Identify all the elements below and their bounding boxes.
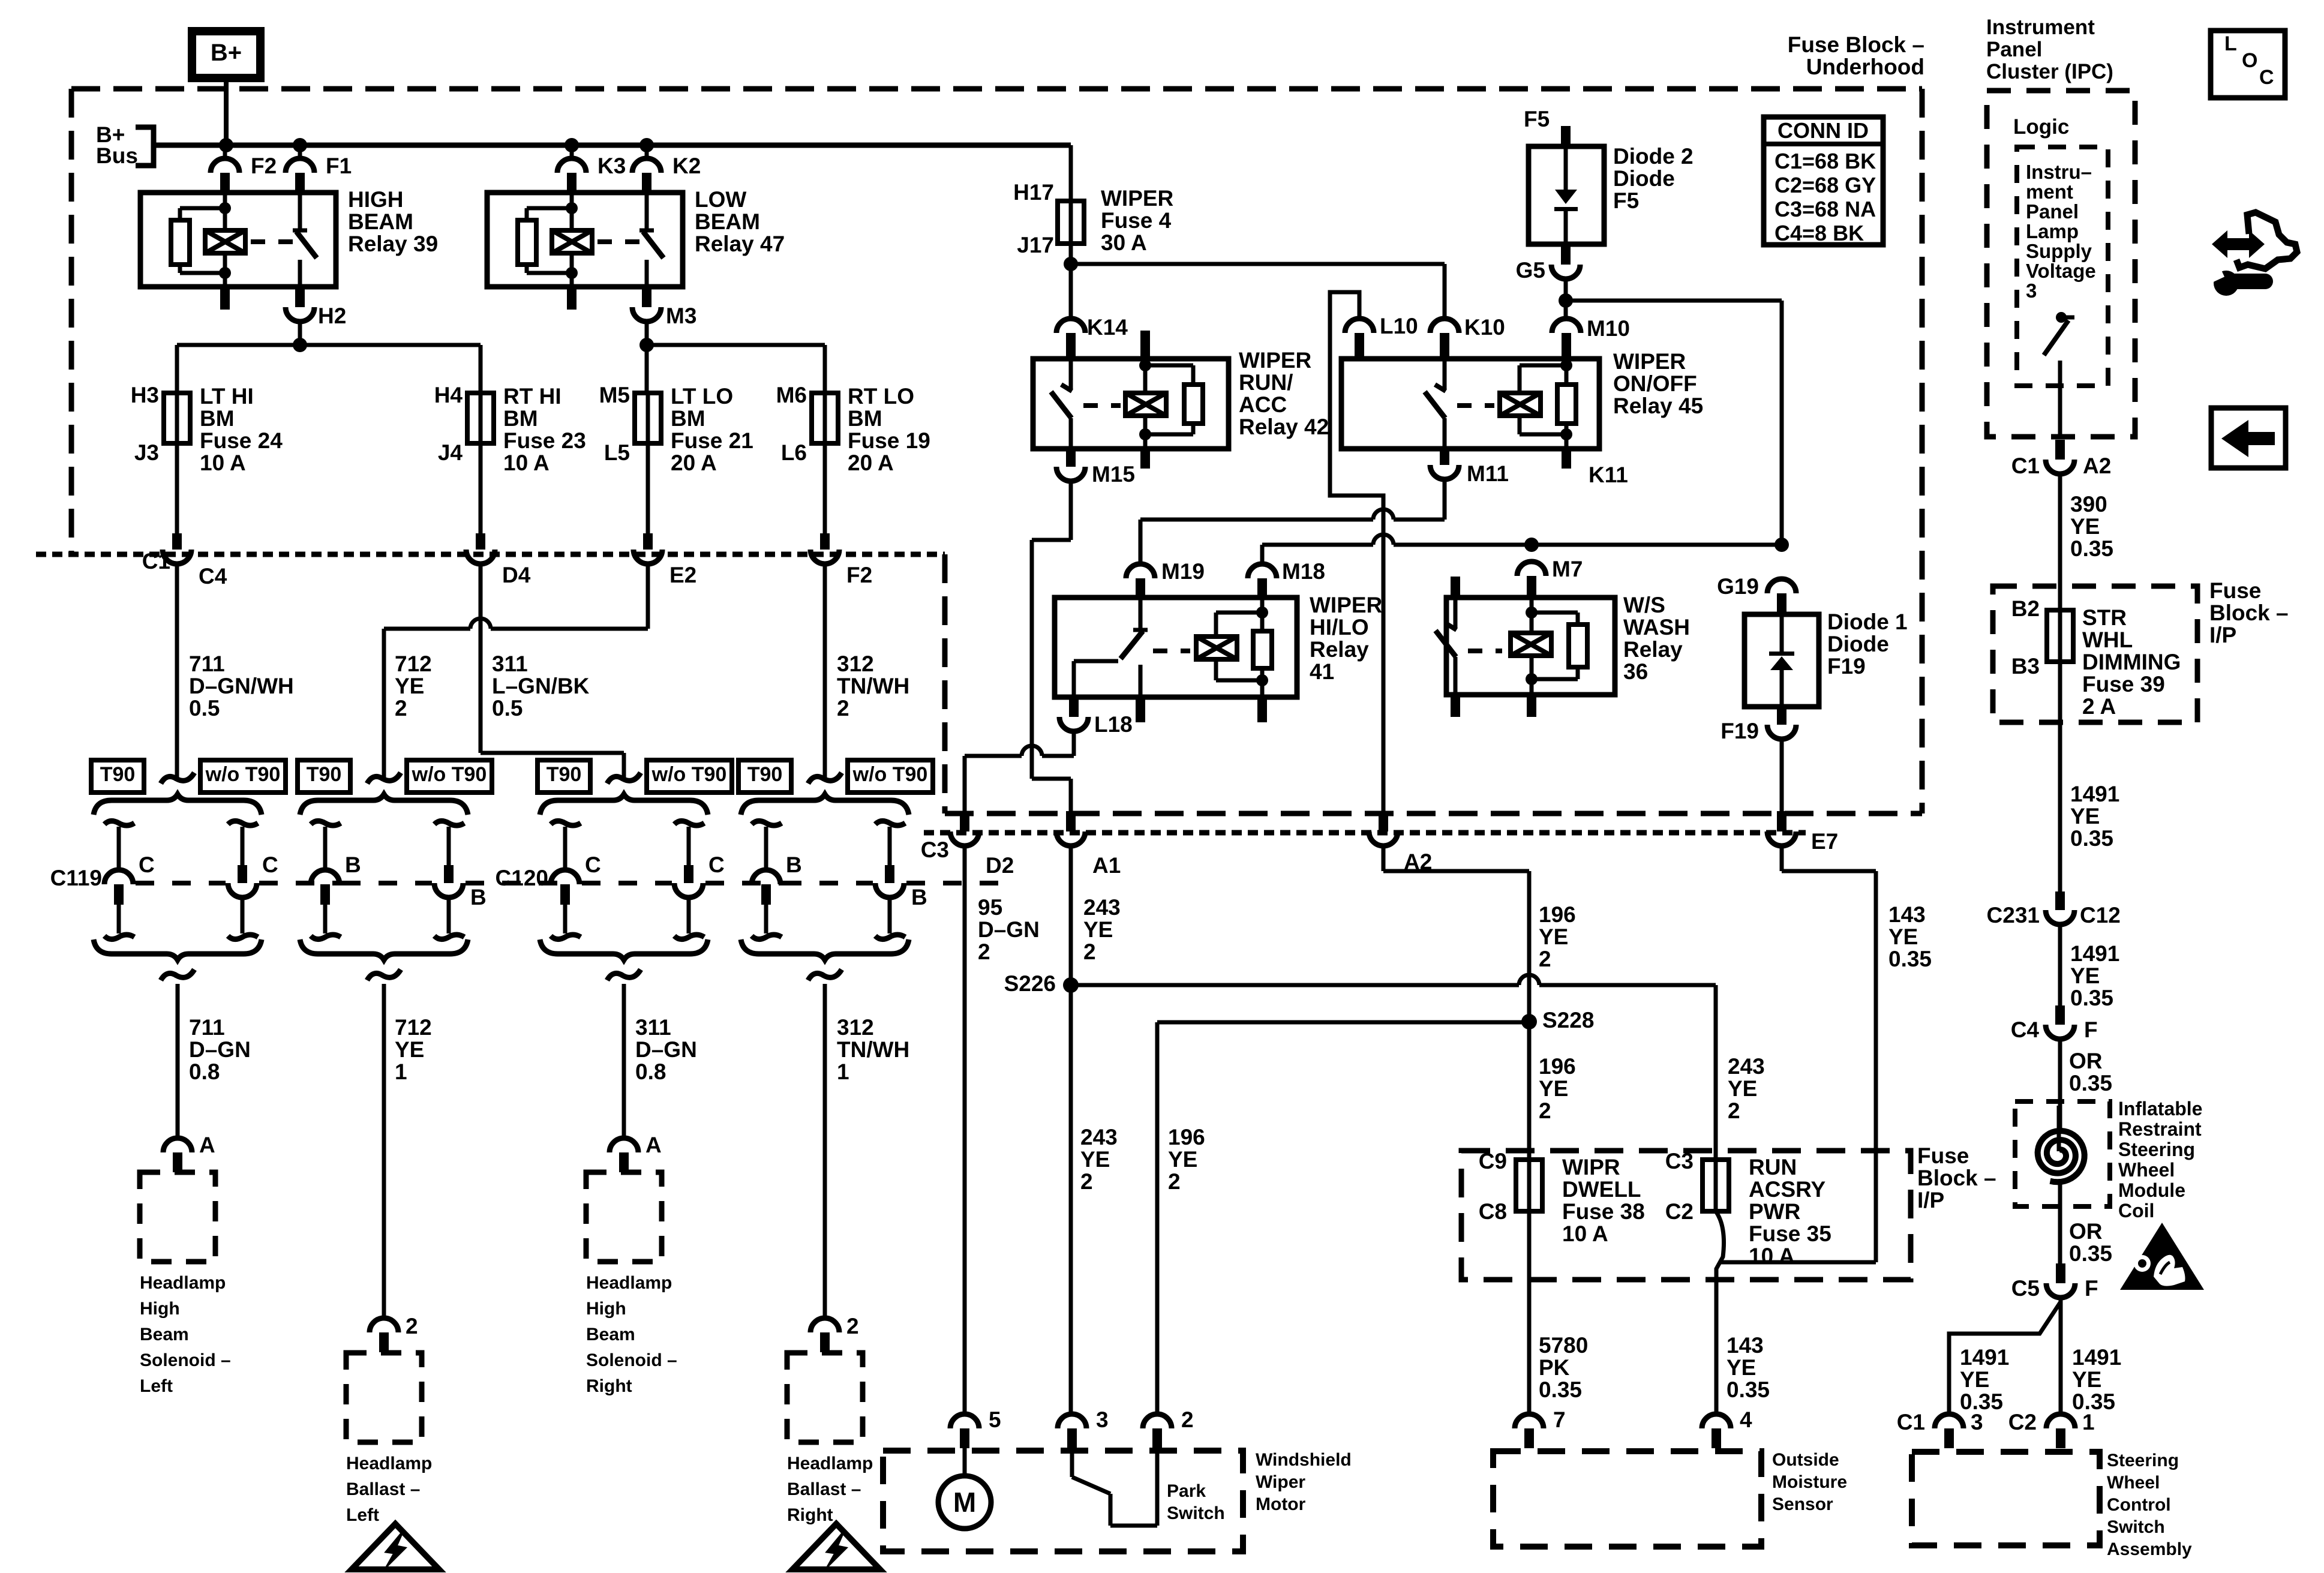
svg-text:Fuse 35: Fuse 35 — [1749, 1221, 1831, 1246]
inline connector dashes — [783, 881, 873, 885]
svg-text:LT HI: LT HI — [200, 384, 254, 409]
svg-text:C1: C1 — [1897, 1410, 1925, 1434]
svg-text:143: 143 — [1727, 1333, 1764, 1358]
connector C1/A2 (IPC output) — [2055, 440, 2065, 460]
wire 390 YE 0.35 — [2058, 474, 2062, 610]
svg-text:243: 243 — [1080, 1125, 1118, 1149]
resistor in relay 45 — [1565, 365, 1569, 385]
park switch in wiper motor — [1070, 1448, 1074, 1477]
svg-text:Cluster (IPC): Cluster (IPC) — [1986, 60, 2113, 83]
svg-text:2 A: 2 A — [2082, 694, 2116, 719]
svg-text:Fuse 24: Fuse 24 — [200, 428, 283, 453]
svg-text:RT HI: RT HI — [503, 384, 562, 409]
relay U41 WIPER HI/LO Relay 41 box — [1055, 598, 1297, 697]
wire 143 YE 0.35 from E7 — [1780, 846, 1784, 871]
T90 option box (chain at x=1375) — [738, 760, 791, 792]
Headlamp High Beam Solenoid - Right box — [586, 1172, 662, 1262]
svg-text:Relay 39: Relay 39 — [348, 232, 438, 256]
connector M11 (relay 45 output) — [1440, 449, 1449, 465]
relay 47 coil-switch dashed link — [597, 239, 642, 244]
node: relay39 coil bottom — [219, 267, 231, 279]
svg-text:Relay 47: Relay 47 — [695, 232, 785, 256]
svg-text:20 A: 20 A — [671, 451, 717, 475]
svg-text:YE: YE — [395, 1037, 424, 1062]
connector L10 — [1345, 319, 1374, 333]
svg-text:Steering: Steering — [2107, 1451, 2179, 1470]
svg-text:2: 2 — [846, 1314, 859, 1338]
relay 36 coil-switch dashed link — [1468, 649, 1502, 653]
svg-text:Assembly: Assembly — [2107, 1539, 2192, 1559]
connector pin 5 — [950, 1414, 979, 1428]
B+ power terminal — [192, 31, 260, 78]
connector G19 — [1767, 579, 1796, 593]
svg-text:Headlamp: Headlamp — [787, 1454, 873, 1473]
node: bus junction K2 — [639, 138, 654, 152]
Steering Wheel Control Switch Assembly dashed box — [1912, 1452, 2100, 1545]
left connector half chain — [311, 821, 341, 825]
svg-text:C: C — [585, 852, 601, 877]
svg-text:Coil: Coil — [2118, 1200, 2154, 1221]
optional-splice squiggle — [367, 773, 401, 784]
svg-text:H17: H17 — [1013, 180, 1054, 205]
svg-text:Underhood: Underhood — [1806, 55, 1924, 79]
wire 95 D-GN 2 from D2 to wiper motor — [963, 846, 967, 1414]
wire 311 D-GN 0.8 to right high beam solenoid — [622, 984, 626, 1138]
svg-text:YE: YE — [2072, 1367, 2101, 1392]
relay 42 coil pin stub (bottom) — [1140, 449, 1150, 469]
connector E7 — [1777, 811, 1786, 831]
connector 2 (left ballast) — [370, 1318, 398, 1332]
svg-text:M18: M18 — [1282, 559, 1325, 584]
svg-text:Fuse 19: Fuse 19 — [848, 428, 930, 453]
connector E2 — [643, 533, 653, 550]
svg-text:C12: C12 — [2080, 903, 2121, 927]
svg-text:W/S: W/S — [1623, 593, 1665, 617]
fuse F4 WIPER Fuse 4 30A — [1069, 201, 1073, 244]
svg-text:0.35: 0.35 — [1539, 1377, 1582, 1402]
connector H2 (relay 39 output) — [295, 287, 305, 307]
svg-text:A: A — [199, 1133, 215, 1157]
wire 312 TN/WH 2 from F2 — [823, 564, 827, 780]
optional-splice squiggle — [161, 969, 194, 980]
svg-text:C4=8 BK: C4=8 BK — [1774, 221, 1864, 245]
svg-text:w/o T90: w/o T90 — [412, 763, 487, 786]
svg-text:2: 2 — [1539, 1098, 1551, 1123]
wire 243 YE 2 from S226 to wiper motor pin 3 — [1069, 985, 1073, 1414]
svg-text:2: 2 — [1539, 947, 1551, 971]
svg-text:WHL: WHL — [2082, 628, 2133, 652]
Fuse Block - Underhood dashed border (bottom right) — [945, 811, 1922, 816]
LOC locator icon — [2211, 31, 2285, 98]
svg-text:1491: 1491 — [2070, 941, 2119, 966]
svg-text:Block –: Block – — [2209, 601, 2289, 625]
connector K14 — [1056, 319, 1085, 333]
svg-text:0.35: 0.35 — [1727, 1377, 1770, 1402]
svg-text:PWR: PWR — [1749, 1199, 1800, 1224]
svg-text:Headlamp: Headlamp — [586, 1273, 672, 1293]
svg-text:4: 4 — [1740, 1407, 1752, 1432]
B+ Bus bracket — [136, 127, 154, 166]
CONN ID table — [1764, 117, 1883, 245]
svg-text:Wiper: Wiper — [1256, 1472, 1305, 1492]
wire M11 to relay 41 coil M19 feed — [1443, 479, 1447, 520]
svg-text:L18: L18 — [1094, 712, 1133, 737]
relay U36 W/S WASH Relay 36 box — [1446, 598, 1615, 695]
fuse F19 RT LO BM Fuse 19 20A — [823, 393, 827, 443]
svg-text:RT LO: RT LO — [848, 384, 914, 409]
connector C1 pin 3 — [1935, 1414, 1963, 1428]
svg-text:M15: M15 — [1092, 462, 1135, 487]
connector C2 pin 1 — [2046, 1414, 2075, 1428]
connector pin 3 — [1058, 1414, 1086, 1428]
svg-text:Wheel: Wheel — [2118, 1159, 2175, 1181]
svg-text:0.35: 0.35 — [2070, 536, 2113, 561]
svg-text:YE: YE — [395, 674, 424, 698]
svg-text:T90: T90 — [747, 763, 783, 786]
svg-text:YE: YE — [1539, 924, 1568, 949]
svg-text:K14: K14 — [1087, 315, 1128, 340]
node: bus junction at B+ drop — [219, 138, 233, 152]
wire M18 feed from relay output bus — [1260, 545, 1265, 564]
wire bus to wiper fuse — [1069, 145, 1073, 201]
svg-text:F: F — [2085, 1276, 2098, 1301]
svg-text:BM: BM — [503, 406, 538, 431]
Fuse Block - Underhood dashed border (right) — [1920, 89, 1925, 813]
svg-text:10 A: 10 A — [503, 451, 550, 475]
svg-text:T90: T90 — [307, 763, 342, 786]
svg-text:D–GN: D–GN — [978, 917, 1040, 942]
relay 39 coil — [205, 230, 245, 253]
svg-text:BM: BM — [200, 406, 235, 431]
svg-text:C9: C9 — [1479, 1149, 1507, 1173]
node: bus junction K3 — [565, 138, 579, 152]
svg-text:A: A — [645, 1133, 662, 1157]
relay 36 coil pin stub — [1527, 695, 1536, 717]
wire S228 to wiper motor pin 2 (park switch) — [1157, 1020, 1529, 1025]
connector A (right solenoid) — [609, 1138, 638, 1152]
wire S226 to RUN ACSRY PWR fuse 35 — [1071, 983, 1519, 987]
connector K2 (relay 47 switch feed) — [645, 145, 649, 158]
svg-text:390: 390 — [2070, 492, 2107, 517]
svg-text:711: 711 — [189, 1015, 225, 1040]
svg-text:0.35: 0.35 — [2069, 1241, 2112, 1266]
relay 42 coil-switch dashed link — [1083, 403, 1121, 408]
brace (top) — [94, 794, 262, 815]
svg-text:2: 2 — [1168, 1169, 1181, 1194]
svg-text:D–GN: D–GN — [635, 1037, 697, 1062]
connector F2 (output) — [820, 533, 830, 550]
svg-text:C3: C3 — [1665, 1149, 1694, 1173]
relay 41 switch — [1139, 598, 1143, 630]
svg-text:G19: G19 — [1717, 574, 1759, 599]
svg-text:YE: YE — [2070, 963, 2100, 988]
right connector half chain — [674, 821, 704, 825]
svg-text:C1=68 BK: C1=68 BK — [1774, 149, 1876, 173]
svg-text:ment: ment — [2026, 181, 2073, 203]
svg-text:Bus: Bus — [96, 143, 138, 168]
svg-text:LT LO: LT LO — [671, 384, 733, 409]
svg-text:E7: E7 — [1811, 829, 1838, 854]
wire M3 to low-beam fuses — [645, 322, 649, 345]
svg-text:High: High — [140, 1299, 180, 1319]
svg-text:C120: C120 — [496, 866, 548, 890]
wire 143 YE 0.35 from fuse 35 to moisture sensor pin 4 — [1716, 1211, 1724, 1414]
svg-text:LOW: LOW — [695, 187, 746, 212]
svg-text:YE: YE — [1168, 1147, 1197, 1172]
svg-text:196: 196 — [1539, 902, 1576, 927]
svg-text:C: C — [262, 852, 278, 877]
svg-text:w/o T90: w/o T90 — [205, 763, 281, 786]
wire 712 YE 2 from E2 — [646, 564, 650, 629]
svg-text:B: B — [345, 852, 361, 877]
svg-text:C4: C4 — [2011, 1017, 2040, 1042]
relay 41 coil pin stub — [1257, 697, 1267, 722]
svg-text:2: 2 — [1181, 1407, 1194, 1432]
svg-text:C2=68 GY: C2=68 GY — [1774, 173, 1876, 197]
svg-text:Diode 1: Diode 1 — [1827, 610, 1908, 634]
svg-text:Fuse 4: Fuse 4 — [1101, 208, 1172, 233]
wire G5 to diode 1 column — [1566, 299, 1782, 303]
relay 45 coil — [1565, 359, 1569, 365]
svg-text:S226: S226 — [1004, 971, 1056, 996]
svg-text:T90: T90 — [547, 763, 582, 786]
connector pin 7 — [1515, 1414, 1544, 1428]
inline connector dashes — [582, 881, 672, 885]
resistor in relay 36 — [1532, 611, 1578, 615]
svg-text:M11: M11 — [1467, 461, 1509, 486]
svg-text:Windshield: Windshield — [1256, 1450, 1352, 1470]
brace (top) — [540, 794, 708, 815]
svg-text:w/o T90: w/o T90 — [651, 763, 727, 786]
left connector half chain — [752, 821, 782, 825]
svg-text:D4: D4 — [502, 563, 531, 587]
svg-text:36: 36 — [1623, 659, 1648, 684]
svg-text:DWELL: DWELL — [1562, 1177, 1641, 1202]
connector F19 — [1777, 707, 1786, 725]
w/o T90 option box — [848, 760, 933, 792]
svg-text:F5: F5 — [1524, 107, 1550, 131]
connector pin 2 — [1143, 1414, 1172, 1428]
svg-text:Wheel: Wheel — [2107, 1473, 2160, 1493]
connector M15 (relay 42 output) — [1066, 449, 1076, 467]
optional-splice squiggle — [808, 773, 842, 784]
svg-text:TN/WH: TN/WH — [837, 674, 909, 698]
svg-text:H4: H4 — [434, 383, 463, 407]
SIR airbag warning triangle — [2120, 1223, 2204, 1290]
svg-text:0.35: 0.35 — [1888, 947, 1932, 971]
svg-text:WIPER: WIPER — [1101, 186, 1173, 211]
node: bus junction F1 — [293, 138, 307, 152]
connector M3 (relay 47 output) — [642, 287, 651, 307]
resistor in relay 41 — [1260, 613, 1265, 631]
brace (bottom) — [94, 939, 262, 960]
svg-text:O: O — [2242, 49, 2257, 72]
svg-text:2: 2 — [837, 696, 849, 721]
connector A (left solenoid) — [163, 1138, 192, 1152]
svg-text:Fuse Block –: Fuse Block – — [1788, 32, 1924, 57]
relay 42 coil feed stub (top) — [1140, 331, 1150, 359]
relay 39 unused coil pin stub — [220, 287, 230, 310]
connector K10 — [1430, 319, 1459, 333]
svg-text:2: 2 — [978, 939, 990, 964]
svg-text:1491: 1491 — [1960, 1345, 2009, 1370]
svg-text:Diode: Diode — [1613, 166, 1675, 191]
svg-text:Inflatable: Inflatable — [2118, 1098, 2202, 1119]
svg-text:M5: M5 — [599, 383, 630, 407]
svg-text:0.35: 0.35 — [2070, 826, 2113, 851]
svg-text:BEAM: BEAM — [695, 209, 760, 234]
left connector half chain — [551, 821, 581, 825]
svg-text:2: 2 — [1083, 939, 1096, 964]
svg-text:Fuse: Fuse — [1917, 1143, 1969, 1168]
svg-text:L5: L5 — [604, 440, 630, 465]
svg-text:312: 312 — [837, 652, 874, 676]
svg-text:A2: A2 — [2083, 454, 2111, 478]
Headlamp Ballast - Right box — [787, 1353, 863, 1442]
svg-text:K10: K10 — [1464, 315, 1505, 340]
high voltage warning triangle (left) — [352, 1524, 439, 1569]
svg-text:Fuse: Fuse — [2209, 578, 2261, 603]
connector A2 — [1379, 811, 1388, 831]
svg-text:243: 243 — [1728, 1054, 1765, 1079]
svg-text:YE: YE — [1728, 1076, 1757, 1101]
wire M15 to connector A1 — [1069, 481, 1073, 540]
svg-text:C: C — [708, 852, 725, 877]
svg-text:K3: K3 — [597, 154, 626, 178]
svg-text:A1: A1 — [1092, 853, 1121, 878]
optional-splice squiggle — [607, 773, 641, 784]
svg-text:F19: F19 — [1827, 654, 1866, 679]
connector C5/F — [2056, 1263, 2065, 1283]
svg-text:Solenoid –: Solenoid – — [140, 1350, 231, 1370]
Fuse Block - Underhood dashed border (top) — [71, 86, 1922, 92]
relay U45 WIPER ON/OFF Relay 45 box — [1341, 359, 1599, 449]
relay 36 switch — [1451, 577, 1460, 598]
svg-text:WIPER: WIPER — [1613, 349, 1686, 374]
svg-text:C3=68 NA: C3=68 NA — [1774, 197, 1876, 221]
svg-text:Panel: Panel — [2026, 200, 2079, 223]
svg-text:YE: YE — [1083, 917, 1113, 942]
svg-text:3: 3 — [1971, 1410, 1983, 1434]
svg-text:143: 143 — [1888, 902, 1926, 927]
connector L10 feed loop — [1330, 292, 1383, 811]
connector F2 (relay 39 coil feed) — [223, 145, 227, 158]
svg-text:HI/LO: HI/LO — [1310, 615, 1369, 640]
svg-text:B: B — [911, 885, 927, 909]
svg-text:311: 311 — [492, 652, 528, 676]
svg-text:ACC: ACC — [1239, 392, 1287, 417]
svg-text:3: 3 — [1096, 1407, 1109, 1432]
svg-text:YE: YE — [1727, 1355, 1756, 1380]
wire 711 D-GN 0.8 to left high beam solenoid — [176, 984, 180, 1138]
svg-text:Logic: Logic — [2013, 115, 2069, 139]
w/o T90 option box — [407, 760, 492, 792]
svg-text:2: 2 — [395, 696, 407, 721]
svg-text:F19: F19 — [1721, 719, 1759, 743]
svg-text:Headlamp: Headlamp — [140, 1273, 226, 1293]
svg-text:Beam: Beam — [586, 1325, 635, 1344]
svg-text:YE: YE — [2070, 514, 2100, 539]
svg-text:K11: K11 — [1589, 463, 1628, 487]
brace (bottom) — [741, 939, 909, 960]
svg-text:L: L — [2224, 32, 2237, 55]
underhood lower connector row (dashed) — [924, 830, 1806, 836]
brace (top) — [300, 794, 468, 815]
svg-text:w/o T90: w/o T90 — [852, 763, 928, 786]
wire 712 YE 1 to left ballast — [382, 984, 386, 1318]
svg-text:Instrument: Instrument — [1986, 16, 2095, 39]
svg-text:D2: D2 — [986, 853, 1014, 878]
svg-text:YE: YE — [1960, 1367, 1989, 1392]
svg-text:H2: H2 — [318, 304, 346, 328]
svg-text:RUN/: RUN/ — [1239, 370, 1293, 395]
resistor in relay 42 — [1145, 364, 1193, 368]
svg-text:Fuse 23: Fuse 23 — [503, 428, 586, 453]
wire 1491 YE 0.35 below fuse 39 — [2058, 662, 2062, 891]
Inflatable Restraint Steering Wheel Module Coil dashed box — [2015, 1101, 2110, 1206]
svg-text:Switch: Switch — [1167, 1503, 1225, 1523]
wire 243 YE 2 from A1 — [1069, 846, 1073, 985]
svg-text:BM: BM — [848, 406, 882, 431]
svg-text:F2: F2 — [251, 154, 277, 178]
svg-text:STR: STR — [2082, 605, 2127, 630]
connector M7 — [1517, 562, 1546, 576]
svg-text:High: High — [586, 1299, 626, 1319]
svg-text:S228: S228 — [1542, 1008, 1594, 1032]
connector C3/D2 — [960, 811, 969, 831]
svg-text:0.5: 0.5 — [189, 696, 220, 721]
svg-text:WIPR: WIPR — [1562, 1155, 1620, 1179]
svg-text:3: 3 — [2026, 280, 2037, 302]
Headlamp Ballast - Left box — [346, 1353, 422, 1442]
svg-text:DIMMING: DIMMING — [2082, 650, 2181, 674]
svg-text:243: 243 — [1083, 895, 1121, 920]
svg-text:C1: C1 — [2011, 454, 2040, 478]
connector C231/C12 — [2055, 891, 2065, 910]
wire J17 to relay 42 switch — [1069, 264, 1073, 319]
svg-text:E2: E2 — [669, 563, 696, 587]
svg-text:G5: G5 — [1516, 258, 1545, 283]
connector G5 — [1561, 244, 1571, 265]
svg-text:0.35: 0.35 — [2069, 1071, 2112, 1095]
connector C1/C4 — [172, 533, 182, 550]
wire F19 to E7 — [1780, 739, 1784, 811]
connector M18 — [1248, 564, 1277, 578]
svg-text:YE: YE — [1888, 924, 1918, 949]
svg-text:1: 1 — [837, 1059, 849, 1084]
Headlamp High Beam Solenoid - Left box — [140, 1172, 215, 1262]
svg-text:M19: M19 — [1161, 559, 1205, 584]
svg-text:H3: H3 — [131, 383, 159, 407]
svg-text:HIGH: HIGH — [348, 187, 404, 212]
svg-text:C2: C2 — [1665, 1199, 1694, 1224]
back arrow icon — [2211, 408, 2286, 468]
svg-text:F: F — [2084, 1017, 2098, 1042]
svg-text:Control: Control — [2107, 1495, 2171, 1515]
svg-text:C3: C3 — [921, 837, 949, 862]
svg-text:L6: L6 — [781, 440, 807, 465]
left connector half chain — [104, 821, 134, 825]
svg-text:Block –: Block – — [1917, 1166, 1996, 1190]
svg-text:20 A: 20 A — [848, 451, 894, 475]
svg-text:712: 712 — [395, 652, 432, 676]
svg-text:C1: C1 — [142, 549, 170, 574]
svg-text:Restraint: Restraint — [2118, 1118, 2202, 1140]
svg-text:YE: YE — [1080, 1147, 1110, 1172]
node: splice S226 — [1063, 977, 1079, 993]
T90 option box (chain at x=296) — [91, 760, 144, 792]
relay 47 unused coil pin stub — [567, 287, 577, 310]
